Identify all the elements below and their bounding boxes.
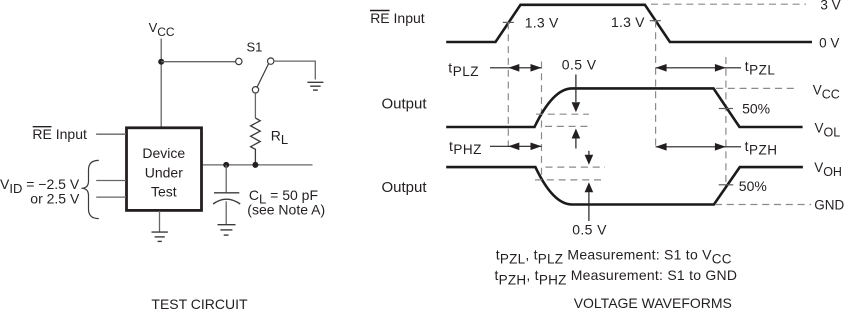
wire S1 to ground: [274, 61, 315, 79]
arrow tPHZ: [490, 143, 542, 151]
svg-text:tPLZ: tPLZ: [448, 59, 479, 78]
arrow up VOL output1: [572, 129, 581, 149]
svg-text:tPZH, tPHZ Measurement: S1 to: tPZH, tPHZ Measurement: S1 to GND: [495, 267, 738, 287]
output waveform 2 (high to Z): [446, 167, 803, 204]
arrow tPLZ: [490, 64, 542, 72]
switch S1 pole top: [268, 58, 274, 64]
svg-text:Device: Device: [142, 145, 185, 161]
ground at DUT: [152, 232, 168, 241]
output waveform 1 (low to Z): [446, 88, 802, 127]
wire VID lower to DUT: [96, 196, 126, 198]
svg-text:tPZH: tPZH: [745, 138, 778, 158]
node CL junction: [223, 162, 229, 168]
wire to CL: [225, 165, 227, 192]
arrow down VOH output2: [585, 151, 594, 165]
svg-text:0.5 V: 0.5 V: [562, 57, 597, 73]
svg-text:TEST CIRCUIT: TEST CIRCUIT: [151, 296, 248, 309]
capacitor CL: [213, 193, 240, 204]
svg-text:Output: Output: [382, 179, 428, 196]
tick 1.3V rising: [503, 21, 514, 23]
arrow tPZL: [656, 64, 741, 72]
input waveform RE: [446, 5, 812, 42]
svg-text:50%: 50%: [742, 100, 770, 116]
svg-text:50%: 50%: [739, 178, 767, 194]
svg-text:Test: Test: [151, 184, 177, 200]
dashed level 3V: [651, 3, 806, 5]
tick 1.3V falling: [650, 20, 661, 22]
svg-text:or 2.5 V: or 2.5 V: [30, 190, 80, 206]
wire VCC node to S1: [161, 61, 235, 63]
arrow down 0.5V output1: [572, 75, 581, 113]
device under test U1 box: [127, 128, 202, 211]
switch S1 contact left: [236, 58, 242, 64]
svg-text:1.3 V: 1.3 V: [611, 14, 645, 30]
svg-text:3 V: 3 V: [820, 0, 840, 13]
svg-text:RL: RL: [271, 128, 288, 147]
RE input label overline: [33, 126, 52, 128]
svg-text:0.5 V: 0.5 V: [572, 222, 607, 238]
ground at CL: [218, 225, 236, 235]
switch S1 blade: [257, 64, 268, 87]
wire RE input to DUT: [96, 133, 126, 135]
svg-text:VOL: VOL: [815, 121, 841, 140]
wire output horizontal: [202, 164, 313, 166]
wire VID upper to DUT: [96, 180, 126, 182]
svg-text:1.3 V: 1.3 V: [525, 14, 559, 30]
arrow up 0.5V output2: [585, 182, 594, 221]
wire DUT to ground: [159, 211, 161, 232]
dashed vertical C input fall: [655, 21, 657, 148]
svg-text:(see Note A): (see Note A): [247, 202, 325, 218]
tick 50% output1: [719, 108, 733, 110]
svg-text:RE Input: RE Input: [32, 126, 87, 142]
dashed level VOL+0.5: [536, 113, 589, 115]
dashed level VCC: [716, 87, 797, 89]
dashed vertical B 0.5V crossing: [541, 62, 543, 182]
wire S1 to RL: [254, 93, 256, 118]
resistor RL: [251, 118, 261, 162]
svg-text:Output: Output: [382, 95, 428, 112]
node RL junction: [252, 162, 258, 168]
dashed level VOH-0.5: [535, 179, 605, 181]
ground at S1: [307, 82, 323, 90]
wire VCC vertical to DUT: [160, 39, 162, 128]
arrow tPZH: [656, 143, 741, 151]
svg-text:VCC: VCC: [149, 20, 175, 39]
svg-text:VCC: VCC: [813, 82, 840, 101]
dashed level GND: [715, 204, 811, 206]
svg-text:GND: GND: [814, 197, 844, 212]
RE input waveform label overline: [370, 10, 390, 12]
tick 50% output2: [719, 184, 734, 186]
svg-text:RE Input: RE Input: [370, 10, 425, 26]
svg-text:0 V: 0 V: [819, 35, 839, 50]
dashed vertical D 50% crossing: [725, 57, 727, 187]
node VCC junction: [158, 59, 164, 65]
svg-text:Under: Under: [145, 164, 183, 180]
svg-text:tPHZ: tPHZ: [449, 138, 482, 157]
dashed level VOH extension: [546, 166, 606, 168]
svg-text:tPZL: tPZL: [745, 58, 776, 78]
svg-text:S1: S1: [247, 39, 263, 54]
svg-text:VOH: VOH: [814, 160, 842, 179]
dashed level VOL extension: [545, 125, 589, 127]
brace for VID inputs: [82, 160, 99, 218]
svg-text:VOLTAGE WAVEFORMS: VOLTAGE WAVEFORMS: [574, 295, 732, 309]
dashed vertical A input rise: [507, 23, 509, 147]
wire CL to ground: [225, 201, 227, 224]
switch S1 contact bottom: [252, 87, 258, 93]
svg-text:tPZL, tPLZ Measurement: S1 to: tPZL, tPLZ Measurement: S1 to VCC: [496, 246, 732, 266]
